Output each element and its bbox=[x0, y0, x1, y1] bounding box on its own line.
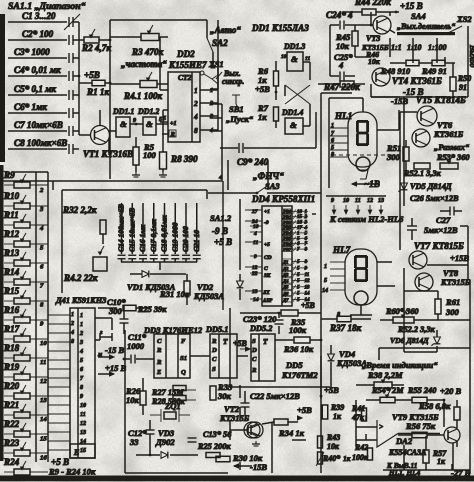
svg-text:9: 9 bbox=[305, 266, 308, 272]
svg-text:14: 14 bbox=[322, 288, 328, 294]
svg-text:Д4: Д4 bbox=[282, 279, 289, 284]
svg-text:Д41 К591КН3: Д41 К591КН3 bbox=[55, 296, 106, 305]
svg-text:R10: R10 bbox=[3, 191, 20, 201]
svg-text:DD1.2: DD1.2 bbox=[137, 107, 159, 116]
svg-text:DD1.4: DD1.4 bbox=[281, 108, 303, 117]
svg-text:Выход: Выход bbox=[468, 44, 474, 67]
svg-text:R43: R43 bbox=[326, 433, 340, 442]
svg-text:R48 910: R48 910 bbox=[380, 66, 411, 76]
svg-text:+5 В: +5 В bbox=[214, 237, 232, 247]
svg-text:-9 В: -9 В bbox=[212, 226, 228, 236]
svg-text:3: 3 bbox=[39, 206, 44, 213]
svg-text:С21 10: С21 10 bbox=[192, 230, 201, 252]
svg-text:С2* 100: С2* 100 bbox=[22, 29, 54, 39]
svg-text:С14 100мк×6В: С14 100мк×6В bbox=[117, 204, 126, 252]
svg-text:R: R bbox=[251, 367, 257, 374]
svg-text:SA4: SA4 bbox=[411, 11, 426, 21]
svg-text:C: C bbox=[212, 356, 217, 363]
svg-text:-9: -9 bbox=[264, 220, 269, 226]
svg-text:12: 12 bbox=[367, 198, 373, 204]
svg-text:9: 9 bbox=[331, 198, 334, 204]
svg-text:11: 11 bbox=[80, 412, 86, 418]
svg-text:DD5.2: DD5.2 bbox=[249, 324, 272, 333]
svg-text:>: > bbox=[379, 422, 383, 431]
svg-text:100к: 100к bbox=[352, 453, 369, 462]
svg-text:1: 1 bbox=[331, 123, 334, 129]
svg-text:R: R bbox=[211, 338, 217, 345]
svg-text:10: 10 bbox=[281, 54, 287, 60]
svg-text:Д7: Д7 bbox=[282, 298, 289, 303]
svg-text:R8 390: R8 390 bbox=[170, 154, 198, 164]
svg-text:„Время индикации“: „Время индикации“ bbox=[362, 360, 438, 370]
svg-text:1: 1 bbox=[194, 86, 198, 95]
svg-text:К176ТМ2: К176ТМ2 bbox=[281, 370, 318, 380]
svg-text:S1: S1 bbox=[180, 355, 187, 362]
svg-text:XS2: XS2 bbox=[456, 14, 472, 24]
svg-text:Z: Z bbox=[156, 369, 161, 376]
svg-text:8: 8 bbox=[305, 259, 308, 265]
svg-text:R: R bbox=[156, 347, 162, 354]
svg-text:R39: R39 bbox=[330, 403, 344, 412]
svg-text:DD1 К155ЛА3: DD1 К155ЛА3 bbox=[251, 23, 309, 33]
svg-text:14: 14 bbox=[40, 416, 47, 423]
svg-text:12: 12 bbox=[305, 278, 311, 284]
svg-text:„Пуск“: „Пуск“ bbox=[226, 114, 254, 124]
svg-text:R17: R17 bbox=[3, 324, 20, 334]
svg-text:5: 5 bbox=[297, 278, 300, 284]
svg-text:R25 39к: R25 39к bbox=[137, 305, 167, 314]
svg-text:VT4 КТ361Б: VT4 КТ361Б bbox=[392, 76, 442, 86]
svg-text:5: 5 bbox=[297, 259, 300, 265]
svg-text:+1: +1 bbox=[264, 209, 270, 215]
svg-text:5: 5 bbox=[331, 145, 334, 151]
svg-text:9: 9 bbox=[133, 118, 136, 124]
svg-text:12: 12 bbox=[80, 421, 86, 427]
svg-text:D: D bbox=[211, 347, 217, 354]
svg-text:&: & bbox=[120, 119, 127, 129]
svg-text:R58 6,8к: R58 6,8к bbox=[418, 401, 451, 411]
svg-text:8: 8 bbox=[305, 247, 308, 253]
svg-text:C: C bbox=[157, 338, 162, 345]
svg-text:+5 В: +5 В bbox=[51, 457, 69, 467]
svg-text:11: 11 bbox=[253, 240, 258, 246]
svg-text:С16 1мк: С16 1мк bbox=[138, 225, 147, 252]
svg-text:1к: 1к bbox=[333, 412, 342, 421]
svg-text:C: C bbox=[252, 356, 257, 363]
svg-text:С24* 4: С24* 4 bbox=[326, 10, 353, 20]
svg-text:5: 5 bbox=[80, 358, 83, 364]
svg-text:АБР: АБР bbox=[262, 299, 273, 304]
svg-text:+5В: +5В bbox=[301, 301, 315, 310]
svg-text:К сеткам HL2-HL6: К сеткам HL2-HL6 bbox=[329, 214, 404, 224]
svg-text:1000: 1000 bbox=[127, 341, 145, 351]
svg-text:С18 0,01мк: С18 0,01мк bbox=[160, 215, 169, 252]
svg-text:13: 13 bbox=[378, 198, 384, 204]
svg-text:S: S bbox=[212, 366, 216, 373]
svg-text:R54* 2М: R54* 2М bbox=[371, 386, 404, 395]
svg-text:13: 13 bbox=[252, 289, 258, 295]
svg-text:3: 3 bbox=[209, 114, 213, 120]
svg-text:VD5 Д814Д: VD5 Д814Д bbox=[410, 182, 452, 191]
svg-text:1к: 1к bbox=[437, 457, 446, 466]
svg-text:5: 5 bbox=[297, 272, 300, 278]
svg-text:8: 8 bbox=[194, 126, 198, 135]
svg-text:DD2: DD2 bbox=[176, 49, 195, 59]
svg-text:R60* 360: R60* 360 bbox=[385, 307, 419, 316]
svg-text:R56 75к: R56 75к bbox=[405, 421, 436, 431]
svg-text:F: F bbox=[181, 338, 186, 345]
svg-text:T: T bbox=[263, 337, 268, 346]
svg-text:С27: С27 bbox=[436, 215, 451, 225]
svg-text:15: 15 bbox=[40, 435, 47, 442]
svg-text:9: 9 bbox=[80, 394, 83, 400]
svg-text:R19: R19 bbox=[3, 362, 20, 372]
svg-text:4: 4 bbox=[338, 60, 343, 70]
svg-text:7: 7 bbox=[297, 247, 300, 253]
svg-text:R52.1 3,3к: R52.1 3,3к bbox=[403, 169, 441, 178]
svg-text:10к: 10к bbox=[336, 41, 350, 51]
svg-text:8: 8 bbox=[71, 339, 74, 345]
svg-text:R37 18к: R37 18к bbox=[329, 323, 362, 333]
svg-text:33: 33 bbox=[129, 437, 139, 447]
svg-text:+5В: +5В bbox=[255, 84, 270, 94]
svg-text:4: 4 bbox=[70, 330, 74, 336]
svg-text:1к: 1к bbox=[258, 112, 267, 122]
svg-text:1к: 1к bbox=[343, 454, 351, 463]
svg-text:10к: 10к bbox=[126, 395, 140, 405]
svg-text:DD4 КР558ХП1: DD4 КР558ХП1 bbox=[251, 194, 315, 204]
svg-text:T: T bbox=[223, 337, 228, 346]
svg-text:С7 10мк×6В: С7 10мк×6В bbox=[14, 120, 63, 130]
svg-text:DD5: DD5 bbox=[285, 360, 303, 370]
svg-text:R31 10к: R31 10к bbox=[159, 289, 190, 299]
svg-text:9: 9 bbox=[254, 254, 257, 260]
svg-text:R3 470к: R3 470к bbox=[131, 47, 164, 57]
svg-text:+15 В: +15 В bbox=[105, 363, 127, 373]
svg-text:13: 13 bbox=[80, 430, 86, 436]
svg-text:+5В: +5В bbox=[84, 70, 100, 80]
svg-text:+15 В: +15 В bbox=[400, 1, 423, 11]
svg-text:Д2: Д2 bbox=[282, 267, 289, 272]
svg-text:SA2: SA2 bbox=[212, 38, 228, 48]
svg-text:С15 10мк×6В: С15 10мк×6В bbox=[127, 208, 136, 252]
svg-text:КД503А: КД503А bbox=[193, 291, 224, 301]
svg-text:„Размах“: „Размах“ bbox=[434, 142, 470, 152]
svg-text:CD: CD bbox=[264, 255, 272, 261]
svg-text:+5В: +5В bbox=[233, 339, 247, 348]
svg-text:R14: R14 bbox=[3, 267, 20, 277]
svg-text:300: 300 bbox=[445, 307, 460, 317]
svg-text:Q: Q bbox=[181, 369, 186, 376]
svg-text:DD1.1: DD1.1 bbox=[112, 107, 134, 116]
svg-text:16: 16 bbox=[40, 454, 47, 461]
svg-text:С25*: С25* bbox=[334, 52, 353, 62]
svg-text:R4.1 100к: R4.1 100к bbox=[123, 91, 162, 101]
svg-text:РВ7: РВ7 bbox=[283, 248, 292, 253]
svg-text:R52.2 3,3к: R52.2 3,3к bbox=[397, 325, 435, 334]
svg-text:R61: R61 bbox=[445, 297, 460, 307]
svg-text:R15: R15 bbox=[3, 286, 20, 296]
svg-text:1: 1 bbox=[80, 313, 83, 319]
svg-text:R24: R24 bbox=[3, 457, 20, 467]
svg-text:13: 13 bbox=[40, 397, 47, 404]
svg-text:DD5.1: DD5.1 bbox=[205, 325, 228, 334]
svg-text:R: R bbox=[156, 359, 162, 366]
svg-text:R12: R12 bbox=[3, 229, 20, 239]
svg-text:91: 91 bbox=[459, 83, 467, 92]
svg-text:11: 11 bbox=[305, 272, 310, 278]
svg-text:С1 3...20: С1 3...20 bbox=[22, 11, 56, 21]
svg-text:КТ361Б: КТ361Б bbox=[433, 129, 464, 139]
svg-text:14: 14 bbox=[305, 291, 311, 297]
svg-text:-15 В: -15 В bbox=[105, 345, 125, 355]
svg-text:300: 300 bbox=[386, 152, 401, 162]
svg-text:С4* 0,01 мк: С4* 0,01 мк bbox=[14, 65, 61, 75]
svg-text:&: & bbox=[146, 119, 153, 129]
svg-text:8: 8 bbox=[80, 385, 83, 391]
svg-text:DA2: DA2 bbox=[395, 436, 413, 446]
svg-text:С13* 56: С13* 56 bbox=[203, 430, 232, 439]
svg-text:R25 200к: R25 200к bbox=[197, 442, 231, 451]
svg-text:К155ИЕ7: К155ИЕ7 bbox=[168, 60, 207, 70]
svg-text:R36 10к: R36 10к bbox=[283, 344, 314, 354]
svg-text:VT1 КТ316В: VT1 КТ316В bbox=[83, 149, 133, 159]
svg-text:1:10: 1:10 bbox=[407, 43, 422, 52]
svg-text:VT3: VT3 bbox=[366, 34, 380, 43]
svg-text:&: & bbox=[291, 54, 298, 64]
svg-text:R34 1к: R34 1к bbox=[278, 428, 305, 438]
svg-text:4: 4 bbox=[193, 112, 198, 121]
svg-text:+15В: +15В bbox=[450, 253, 469, 263]
svg-text:10: 10 bbox=[253, 224, 259, 230]
svg-text:Д5: Д5 bbox=[282, 286, 289, 291]
svg-text:22: 22 bbox=[251, 271, 258, 277]
svg-text:10: 10 bbox=[40, 340, 47, 347]
svg-text:4: 4 bbox=[79, 349, 83, 355]
svg-text:R18: R18 bbox=[3, 343, 20, 353]
svg-text:С: С bbox=[264, 266, 268, 272]
svg-text:10: 10 bbox=[343, 198, 349, 204]
svg-text:R11: R11 bbox=[3, 210, 19, 220]
svg-text:синхр.: синхр. bbox=[222, 77, 244, 86]
svg-text:R49 91: R49 91 bbox=[421, 66, 447, 76]
svg-text:E: E bbox=[73, 448, 79, 457]
svg-text:ЛХ: ЛХ bbox=[262, 291, 270, 296]
svg-text:R38 2,2М: R38 2,2М bbox=[367, 370, 403, 380]
svg-text:R16: R16 bbox=[3, 305, 20, 315]
svg-text:R1 1к: R1 1к bbox=[86, 87, 109, 97]
svg-text:D: D bbox=[251, 347, 257, 354]
svg-text:С20 100: С20 100 bbox=[181, 226, 190, 252]
svg-text:Д902: Д902 bbox=[155, 437, 175, 447]
svg-text:R44 220к: R44 220к bbox=[354, 0, 391, 7]
svg-text:100к: 100к bbox=[289, 325, 307, 335]
svg-text:DD1.3: DD1.3 bbox=[283, 42, 305, 51]
svg-text:2: 2 bbox=[79, 331, 83, 337]
svg-text:30к: 30к bbox=[217, 391, 232, 401]
svg-text:ZQ1: ZQ1 bbox=[164, 401, 181, 411]
svg-text:11: 11 bbox=[40, 359, 46, 366]
svg-text:С26 5мк×12В: С26 5мк×12В bbox=[410, 194, 459, 203]
svg-text:-15В: -15В bbox=[250, 462, 267, 472]
svg-text:R23: R23 bbox=[3, 438, 20, 448]
svg-text:R13: R13 bbox=[3, 248, 20, 258]
svg-text:ЗК: ЗК bbox=[263, 273, 271, 279]
svg-text:100: 100 bbox=[143, 150, 157, 160]
svg-text:11: 11 bbox=[305, 56, 310, 62]
svg-text:Д6: Д6 bbox=[282, 292, 289, 297]
svg-text:С9* 240: С9* 240 bbox=[237, 157, 269, 167]
svg-text:S: S bbox=[252, 338, 256, 345]
svg-text:&: & bbox=[290, 120, 297, 130]
svg-text:„Вых.делитель“: „Вых.делитель“ bbox=[397, 22, 455, 31]
svg-text:10: 10 bbox=[80, 403, 86, 409]
svg-text:R55 240: R55 240 bbox=[407, 386, 436, 395]
svg-text:R9 - R24 10к: R9 - R24 10к bbox=[48, 467, 96, 477]
svg-text:5: 5 bbox=[297, 291, 300, 297]
svg-text:+5В: +5В bbox=[297, 405, 312, 415]
svg-text:R21: R21 bbox=[3, 400, 19, 410]
svg-text:R: R bbox=[170, 131, 176, 138]
svg-text:С22 5мк×12В: С22 5мк×12В bbox=[250, 391, 300, 401]
svg-text:10к: 10к bbox=[327, 442, 340, 451]
svg-text:11: 11 bbox=[355, 198, 361, 204]
svg-text:5: 5 bbox=[324, 278, 327, 284]
svg-text:15: 15 bbox=[80, 448, 86, 454]
svg-text:SA1.2: SA1.2 bbox=[210, 213, 232, 223]
svg-text:R50: R50 bbox=[457, 74, 471, 83]
svg-text:R20: R20 bbox=[3, 381, 20, 391]
svg-text:VT7 КТ815Б: VT7 КТ815Б bbox=[414, 241, 464, 251]
svg-text:1:1: 1:1 bbox=[391, 43, 402, 52]
svg-text:СТ2: СТ2 bbox=[178, 73, 192, 82]
svg-text:R22: R22 bbox=[3, 419, 20, 429]
svg-text:Д1: Д1 bbox=[282, 261, 288, 266]
svg-text:С3* 1000: С3* 1000 bbox=[14, 47, 50, 57]
svg-text:10к: 10к bbox=[368, 57, 381, 66]
svg-text:м: м bbox=[97, 352, 102, 358]
svg-text:13: 13 bbox=[305, 284, 311, 290]
svg-text:R40*: R40* bbox=[322, 454, 340, 463]
svg-text:4: 4 bbox=[39, 225, 44, 232]
svg-text:С8 100мк×6В: С8 100мк×6В bbox=[14, 138, 67, 148]
svg-text:КТ315Б: КТ315Б bbox=[440, 277, 471, 287]
svg-text:К554СА3А: К554СА3А bbox=[388, 448, 427, 457]
svg-text:Д3: Д3 bbox=[282, 273, 289, 278]
svg-text:5: 5 bbox=[297, 284, 300, 290]
svg-text:12: 12 bbox=[40, 378, 47, 385]
svg-text:1: 1 bbox=[80, 322, 83, 328]
svg-text:VD6 Д814Д: VD6 Д814Д bbox=[390, 336, 429, 345]
svg-text:2: 2 bbox=[39, 187, 44, 194]
svg-text:1: 1 bbox=[324, 264, 327, 270]
svg-text:С23* 120: С23* 120 bbox=[243, 314, 277, 324]
svg-text:С6* 1мк: С6* 1мк bbox=[14, 102, 47, 112]
svg-text:5мк×12В: 5мк×12В bbox=[424, 225, 458, 235]
svg-text:С5* 0,1 мк: С5* 0,1 мк bbox=[14, 84, 56, 94]
svg-text:14: 14 bbox=[253, 297, 259, 303]
svg-text:+5: +5 bbox=[264, 242, 270, 248]
svg-text:2: 2 bbox=[193, 99, 198, 108]
svg-text:R2 4,7к: R2 4,7к bbox=[81, 43, 111, 53]
svg-text:5: 5 bbox=[297, 266, 300, 272]
svg-text:2: 2 bbox=[70, 321, 74, 327]
svg-text:R32 2,2к: R32 2,2к bbox=[62, 205, 97, 215]
svg-text:R53* 360: R53* 360 bbox=[436, 153, 470, 162]
svg-text:+20 В: +20 В bbox=[440, 386, 462, 396]
svg-text:С17 0,1мк: С17 0,1мк bbox=[149, 219, 158, 252]
svg-text:5: 5 bbox=[297, 297, 300, 303]
svg-text:1: 1 bbox=[71, 312, 74, 318]
svg-text:„Авто“: „Авто“ bbox=[210, 25, 241, 35]
svg-text:R4.2 22к: R4.2 22к bbox=[63, 273, 98, 283]
svg-text:С19 1000: С19 1000 bbox=[170, 222, 179, 252]
svg-text:+1: +1 bbox=[170, 121, 177, 127]
svg-text:XS1: XS1 bbox=[208, 59, 224, 69]
svg-text:3: 3 bbox=[79, 340, 83, 346]
